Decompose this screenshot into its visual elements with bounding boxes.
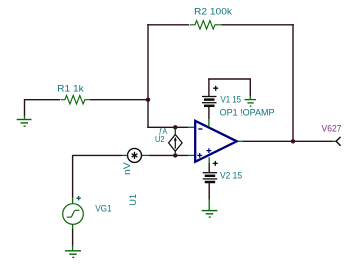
resistor R1 [61, 95, 90, 104]
junction dot at R1 / feedback node [146, 98, 150, 102]
junction dot ammeter top [173, 125, 177, 129]
resistor R2 [190, 21, 222, 30]
svg-text:R2 100k: R2 100k [194, 6, 232, 16]
wire R2 to right feedback leg [222, 24, 294, 26]
svg-text:V2 15: V2 15 [220, 171, 242, 181]
wire vertical feedback right leg [292, 24, 294, 141]
svg-text:V1 15: V1 15 [221, 94, 242, 104]
ammeter U2 (diamond with arrow) [169, 129, 183, 154]
wire VG1 up to noninverting row [72, 155, 74, 204]
wire inverting input row [147, 126, 194, 128]
svg-text:nV: nV [121, 161, 132, 175]
wire from left ground up to R1 row [25, 100, 61, 119]
svg-text:U2: U2 [155, 134, 165, 144]
ground (below VG1) [65, 251, 81, 258]
ground (left, input) [17, 120, 32, 127]
wire VG1 down to ground [72, 224, 74, 250]
op-amp OP1 [195, 121, 237, 162]
wire battery V1 to right mini ground [208, 79, 250, 99]
ground (below V2) [202, 211, 218, 218]
battery V1 [202, 79, 218, 106]
wire R1 to summing node [90, 99, 148, 101]
wire noninverting input row [73, 154, 194, 156]
wire battery V2 to ground [208, 183, 210, 210]
wire top left to R2 [147, 24, 189, 26]
battery V2 [203, 161, 218, 182]
junction dot ammeter bottom [173, 153, 177, 157]
output pin arc [336, 137, 341, 146]
wire op-amp V+ pin to battery V1 [208, 107, 210, 127]
svg-text:R1 1k: R1 1k [57, 83, 84, 93]
wire op-amp V- pin to battery V2 [208, 157, 210, 172]
voltmeter U1 (circle with asterisk) [128, 148, 142, 162]
svg-text:V627: V627 [322, 124, 342, 134]
wire op-amp output to feedback node [238, 140, 293, 142]
svg-text:U1: U1 [128, 194, 138, 206]
svg-text:VG1: VG1 [95, 203, 111, 213]
junction dot output node [291, 139, 295, 143]
svg-text:OP1 !OPAMP: OP1 !OPAMP [220, 107, 275, 117]
generator VG1 (sine/ramp source) [63, 196, 84, 224]
wire vertical feedback left leg [147, 24, 149, 127]
ground (mini, right of V1) [245, 100, 257, 107]
wire output node to pin [293, 140, 337, 142]
